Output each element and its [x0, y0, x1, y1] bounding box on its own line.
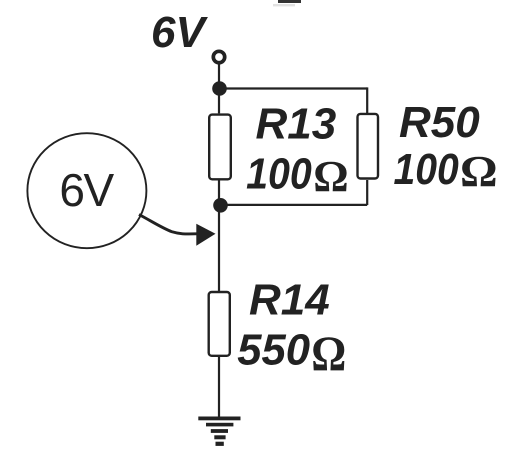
resistor R13 (box): [209, 115, 231, 180]
ground bar 4: [214, 435, 225, 439]
svg-text:100: 100: [394, 144, 459, 194]
svg-text:Ω: Ω: [313, 152, 348, 201]
wire top node to R13: [218, 89, 220, 114]
wire below R13: [218, 180, 220, 205]
svg-text:100: 100: [246, 148, 312, 198]
ground bar 2: [206, 423, 233, 427]
svg-text:6V: 6V: [151, 8, 208, 57]
ground bar 5: [216, 442, 224, 446]
svg-text:R13: R13: [256, 100, 337, 149]
pointer curve from bubble: [139, 215, 197, 234]
wire down to R50: [366, 87, 368, 113]
junction (top node): [212, 81, 227, 96]
resistor R50 (box): [358, 114, 379, 179]
wire middle node down to R14: [218, 205, 220, 291]
stray mark (cropped element at top edge): [278, 0, 301, 3]
wire terminal to top node: [218, 64, 220, 88]
wire bottom horizontal back to middle node: [220, 204, 367, 206]
ground bar 3: [211, 429, 228, 433]
svg-text:6V: 6V: [59, 164, 114, 216]
svg-text:Ω: Ω: [460, 146, 498, 195]
ground bar 1: [198, 417, 240, 421]
label 100Ω (R13 value): [246, 148, 349, 201]
voltage source bubble (circle): [27, 133, 146, 248]
svg-text:550: 550: [237, 325, 310, 374]
wire below R50: [366, 180, 368, 205]
pointer arrowhead: [196, 224, 215, 246]
svg-text:R50: R50: [399, 98, 480, 147]
label 100Ω (R50 value): [394, 144, 498, 196]
junction (middle node): [213, 198, 228, 213]
label 550Ω (R14 value): [237, 325, 346, 381]
terminal (open circle): [213, 51, 224, 62]
wire top horizontal to R50 branch: [219, 87, 367, 89]
wire R14 to ground: [218, 357, 220, 417]
resistor R14 (box): [209, 292, 230, 356]
svg-text:R14: R14: [249, 276, 330, 325]
svg-text:Ω: Ω: [311, 326, 346, 381]
